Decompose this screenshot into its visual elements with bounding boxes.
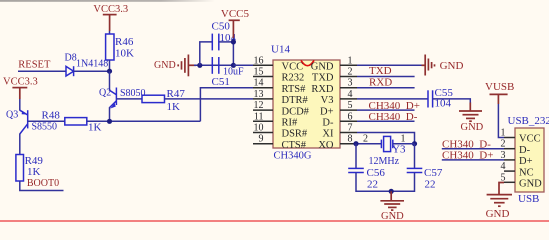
node junction VCC5 C51 pin16 <box>231 63 236 68</box>
svg-text:22: 22 <box>425 179 436 191</box>
power ground left GND <box>154 55 196 77</box>
wire C55 to ground <box>433 99 471 103</box>
svg-text:DCD#: DCD# <box>282 106 310 117</box>
svg-text:9: 9 <box>259 134 264 145</box>
wire crystal left leg down <box>355 144 357 169</box>
svg-text:XO: XO <box>318 140 334 151</box>
svg-text:RXD: RXD <box>311 84 334 95</box>
wire pin 7 to crystal right <box>357 133 415 144</box>
wire pin 1 to GND <box>357 64 422 66</box>
svg-text:RESET: RESET <box>18 60 51 71</box>
pin stubs USB connector <box>504 138 515 183</box>
wire R47 to pin 13 <box>165 98 254 100</box>
wire diode to node <box>74 70 110 72</box>
svg-text:1: 1 <box>348 55 353 66</box>
pin names U14 left column <box>282 62 310 151</box>
pin numbers USB connector <box>501 128 506 184</box>
svg-text:TXD: TXD <box>369 65 392 77</box>
svg-text:D+: D+ <box>519 156 533 167</box>
svg-text:XI: XI <box>322 129 334 140</box>
svg-text:16: 16 <box>254 55 264 66</box>
svg-text:DTR#: DTR# <box>282 95 309 106</box>
svg-text:1: 1 <box>501 128 506 139</box>
svg-text:RI#: RI# <box>282 118 299 129</box>
svg-text:10K: 10K <box>115 48 134 60</box>
wire pin 3 RXD <box>357 87 415 89</box>
svg-text:GND: GND <box>311 62 334 73</box>
svg-text:4: 4 <box>348 89 353 100</box>
svg-text:GND: GND <box>381 211 404 222</box>
svg-text:1K: 1K <box>27 166 41 178</box>
capacitor C55 <box>428 87 453 109</box>
svg-text:R232: R232 <box>282 73 305 84</box>
svg-text:12: 12 <box>254 100 264 111</box>
svg-text:VCC3.3: VCC3.3 <box>93 4 128 15</box>
wire VCC5 column <box>232 38 234 65</box>
node junction VCC5 C50 <box>231 39 236 44</box>
svg-text:TXD: TXD <box>312 73 334 84</box>
svg-text:CTS#: CTS# <box>282 140 307 151</box>
wire USB pin 5 to ground <box>499 183 504 195</box>
svg-text:RXD: RXD <box>369 77 392 89</box>
svg-text:NC: NC <box>519 167 534 178</box>
wire VCC3.3 to R46 <box>109 31 111 34</box>
crystal Y3 12MHz <box>363 134 415 168</box>
svg-text:2: 2 <box>363 134 368 145</box>
wire GND to C51 node <box>194 64 233 66</box>
pin stubs U14 right <box>340 65 357 143</box>
wire C50 left loop <box>200 42 213 65</box>
svg-text:8: 8 <box>348 134 353 145</box>
svg-text:S8550: S8550 <box>32 122 58 133</box>
resistor R47 <box>142 88 185 113</box>
connector USB_232 body <box>508 115 549 205</box>
node junction Q2 emitter / R48 <box>107 119 112 124</box>
svg-text:VCC5: VCC5 <box>221 8 250 20</box>
power VUSB <box>485 81 514 104</box>
svg-text:4: 4 <box>501 161 506 172</box>
wire pin 5 <box>357 109 415 111</box>
wire USB D- <box>442 148 504 150</box>
red arc marker on chip top <box>301 60 314 65</box>
svg-text:R46: R46 <box>115 36 134 48</box>
svg-text:D8: D8 <box>65 52 77 63</box>
svg-text:D+: D+ <box>320 106 334 117</box>
svg-text:GND: GND <box>486 208 510 220</box>
svg-text:C56: C56 <box>367 167 386 179</box>
svg-text:V3: V3 <box>321 95 334 106</box>
svg-text:14: 14 <box>254 78 264 89</box>
pin numbers U14 right <box>348 55 353 144</box>
wire R46 to node <box>109 60 111 71</box>
svg-text:GND: GND <box>519 179 542 190</box>
wire Q3 base to R48 <box>28 120 65 122</box>
resistor R46 <box>106 34 134 60</box>
node junction crystal left <box>353 141 358 146</box>
svg-text:3: 3 <box>348 78 353 89</box>
svg-text:U14: U14 <box>271 44 290 56</box>
svg-text:C50: C50 <box>212 21 231 33</box>
svg-text:GND: GND <box>440 60 464 72</box>
svg-text:Q2: Q2 <box>99 88 111 99</box>
wire Q2 base to R47 <box>116 98 142 100</box>
wire C50 right to VCC5 column <box>219 41 234 43</box>
svg-text:C57: C57 <box>424 167 443 179</box>
power VCC3.3 left <box>3 77 38 99</box>
svg-text:VCC: VCC <box>519 134 541 145</box>
svg-text:13: 13 <box>254 89 264 100</box>
svg-text:GND: GND <box>461 122 484 133</box>
capacitor C56 <box>348 167 385 191</box>
svg-text:VCC: VCC <box>282 62 304 73</box>
svg-text:6: 6 <box>348 111 353 122</box>
capacitor C57 <box>407 167 443 191</box>
resistor R49 <box>16 155 44 182</box>
transistor Q3 S8550 <box>6 99 57 155</box>
resistor R48 <box>42 109 102 133</box>
wire pin 8 to crystal left <box>357 143 381 145</box>
svg-text:BOOT0: BOOT0 <box>27 178 59 189</box>
svg-text:USB_232: USB_232 <box>508 115 549 127</box>
svg-text:DSR#: DSR# <box>282 129 308 140</box>
transistor Q2 S8050 <box>99 71 146 121</box>
svg-text:15: 15 <box>254 67 264 78</box>
capacitor C50 <box>212 21 237 51</box>
svg-text:RTS#: RTS# <box>282 84 307 95</box>
op-amp U14 CH340G chip body <box>271 44 340 162</box>
wire RESET <box>18 70 66 72</box>
diode D8 <box>65 52 109 76</box>
svg-text:GND: GND <box>154 60 176 71</box>
svg-text:Y3: Y3 <box>392 144 406 156</box>
wire crystal right leg down <box>414 144 416 169</box>
svg-text:D-: D- <box>322 118 334 129</box>
power VCC5 <box>221 8 250 38</box>
svg-text:1K: 1K <box>167 101 181 113</box>
svg-text:12MHz: 12MHz <box>369 156 400 167</box>
pin names USB connector <box>519 134 542 190</box>
svg-text:R48: R48 <box>42 109 61 121</box>
ground below crystal <box>380 189 404 222</box>
svg-text:5: 5 <box>348 100 353 111</box>
power ground right of pin 1 <box>422 55 464 76</box>
svg-text:VCC3.3: VCC3.3 <box>3 77 38 88</box>
svg-text:7: 7 <box>348 123 353 134</box>
svg-text:10: 10 <box>254 123 264 134</box>
node junction R46/D8/Q2 <box>107 69 112 74</box>
wire to pin 16 <box>233 64 253 66</box>
wire crystal ground bus <box>356 173 415 192</box>
svg-text:1N4148: 1N4148 <box>76 59 108 70</box>
power VCC3.3 top <box>93 4 128 31</box>
capacitor C51 <box>212 57 245 88</box>
svg-text:VUSB: VUSB <box>485 81 514 93</box>
node junction C51 left <box>197 63 202 68</box>
svg-text:D-: D- <box>519 145 531 156</box>
svg-text:R49: R49 <box>25 155 44 167</box>
wire pin 2 TXD <box>357 76 415 78</box>
svg-text:1K: 1K <box>88 121 102 133</box>
wire R49 to BOOT0 <box>20 181 64 191</box>
wire pin 6 <box>357 120 415 122</box>
wire USB D+ <box>442 159 504 161</box>
wire R48 to Q2 emitter node and pin14 riser <box>87 120 201 122</box>
wire riser to pin 14 <box>200 88 253 122</box>
ground below USB <box>486 195 512 220</box>
node junction crystal right <box>412 141 417 146</box>
svg-text:USB: USB <box>518 193 539 205</box>
pin names U14 right column <box>311 62 334 151</box>
pin stubs U14 left <box>253 65 273 143</box>
wire VUSB to USB pin 1 <box>498 104 504 138</box>
svg-text:Q3: Q3 <box>6 110 18 121</box>
wire pin 4 to C55 <box>357 98 428 100</box>
pin numbers U14 left <box>254 55 264 144</box>
svg-text:CH340G: CH340G <box>274 151 312 162</box>
svg-text:2: 2 <box>348 67 353 78</box>
ground below C55 <box>459 111 484 133</box>
svg-text:11: 11 <box>254 111 264 122</box>
svg-text:C51: C51 <box>212 76 230 88</box>
svg-text:22: 22 <box>367 179 378 191</box>
